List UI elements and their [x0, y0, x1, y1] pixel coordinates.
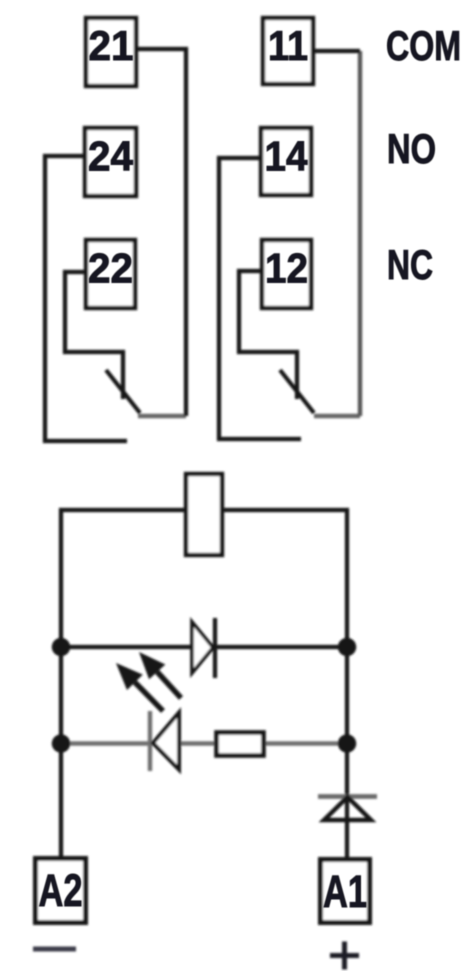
wire from terminal 12 left, down and right to NC contact post: [239, 271, 297, 399]
switch blade of contact group 21-24-22: [106, 370, 140, 413]
terminal box 12: [262, 240, 311, 308]
terminal box 24: [85, 128, 136, 196]
diode D1 triangle: [192, 622, 213, 673]
junction dot left on first rung: [52, 638, 70, 656]
LED emission arrow upper: [139, 652, 181, 698]
svg-text:COM: COM: [386, 22, 461, 69]
wire right rail from coil down to terminal A1: [224, 510, 347, 857]
svg-text:A1: A1: [323, 866, 367, 917]
svg-text:NO: NO: [387, 125, 436, 172]
LED emission arrow lower: [116, 663, 163, 711]
wire second horizontal rung (gray) carrying LED and resistor: [61, 741, 347, 745]
wire from terminal 14 left, down and right to NO contact end: [219, 158, 301, 439]
wire gray vertical rail from terminal 11 down to blade: [358, 51, 362, 416]
wire first horizontal rung carrying suppressor diode: [61, 645, 347, 649]
wire from terminal 24 left, down and right to NO contact end: [45, 156, 127, 441]
svg-text:A2: A2: [39, 865, 83, 916]
junction dot left on second rung: [52, 734, 70, 752]
zener diode D3 triangle: [324, 797, 371, 820]
terminal box 14: [261, 128, 311, 195]
wire gray stub from blade of contact group 11 to its vertical rail: [314, 414, 360, 418]
terminal box 22: [86, 240, 135, 308]
wire gray stub from blade of contact group 21 to its vertical rail: [138, 414, 186, 418]
resistor R1: [217, 733, 264, 756]
terminal box 11: [263, 18, 313, 84]
wire from terminal 22 left, down and right to NC contact post: [65, 272, 123, 399]
switch blade of contact group 11-14-12: [280, 370, 314, 413]
svg-text:21: 21: [89, 22, 134, 69]
wire left rail from coil down to terminal A2: [61, 510, 184, 856]
svg-text:11: 11: [268, 22, 308, 69]
polarity plus at A1: [330, 942, 359, 970]
svg-text:24: 24: [88, 133, 134, 180]
diode D1 cathode bar: [213, 618, 217, 678]
terminal box A2: [36, 859, 86, 923]
terminal box 21: [86, 18, 136, 86]
zener diode D3 cathode bar: [318, 794, 377, 799]
wire from terminal 21 right and down to switch blade: [138, 49, 186, 416]
relay coil K1: [186, 474, 222, 555]
svg-text:22: 22: [88, 245, 133, 292]
polarity minus at A2: [33, 947, 76, 952]
junction dot right on second rung: [338, 734, 356, 752]
svg-text:14: 14: [265, 133, 309, 180]
terminal box A1: [321, 860, 370, 923]
wire from terminal 11 to rail: [315, 49, 360, 53]
LED D2 cathode bar: [148, 711, 152, 771]
junction dot right on first rung: [338, 638, 356, 656]
svg-text:12: 12: [265, 245, 308, 292]
LED D2 triangle: [153, 713, 179, 770]
svg-text:NC: NC: [387, 241, 433, 288]
